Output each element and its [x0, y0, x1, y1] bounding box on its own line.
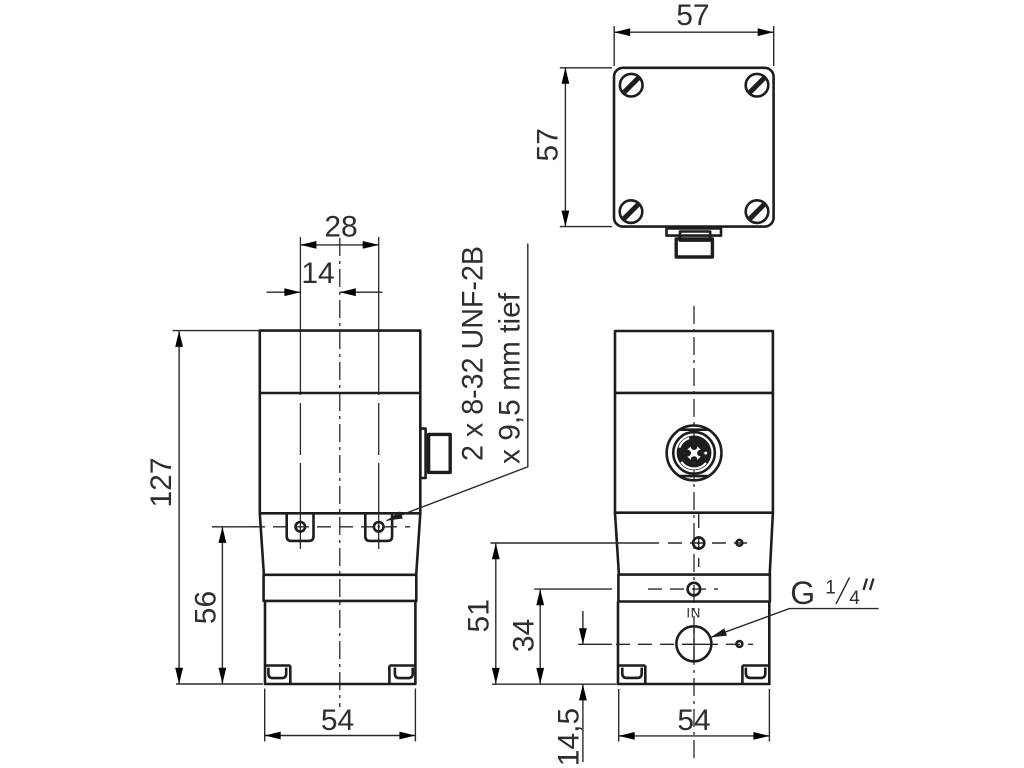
- front view: M12 connector insert: [677, 436, 712, 471]
- top view: housing outline: [614, 68, 774, 227]
- side view: screw axis extension lines: [300, 237, 378, 549]
- front view: taper left edge: [615, 513, 619, 575]
- dimension 127: extension lines: [173, 331, 263, 684]
- top view: screw top-right: [746, 74, 769, 97]
- svg-text:x 9,5 mm tief: x 9,5 mm tief: [494, 292, 527, 464]
- svg-text:51: 51: [463, 599, 496, 632]
- side view: housing cap parting line: [260, 392, 421, 395]
- svg-text:127: 127: [145, 457, 178, 507]
- note leader line: [385, 244, 528, 525]
- dimension 51: dimension line with arrows: [492, 543, 500, 684]
- G 1/4 label text: [790, 575, 873, 611]
- svg-text:56: 56: [190, 591, 223, 624]
- side view: main housing outline: [260, 331, 421, 514]
- front view: M12 pins: [684, 443, 707, 462]
- side view: taper left edge: [260, 513, 264, 575]
- front view: left foot cup: [622, 668, 641, 678]
- FRONT VIEW: [463, 306, 879, 766]
- dimension 57 vertical: extension lines: [560, 68, 612, 227]
- front view: main housing outline: [615, 331, 773, 513]
- svg-text:1: 1: [825, 578, 836, 599]
- front view: taper right edge: [770, 513, 773, 575]
- side view: base block: [265, 601, 415, 684]
- dimension 57 horizontal: dimension line with arrows: [614, 28, 774, 36]
- top view: screw top-left: [620, 74, 643, 97]
- front view: left foot step: [618, 666, 645, 685]
- dimension 54 side: dimension line with arrows: [265, 732, 416, 740]
- side view: left foot cup: [268, 668, 286, 679]
- front view: vertical centerline: [693, 306, 695, 763]
- svg-text:G: G: [790, 575, 815, 611]
- front view: M12 connector hex flats: [679, 430, 710, 476]
- side view: left foot step: [265, 666, 290, 685]
- top view: connector base plate: [667, 228, 722, 235]
- side view: connector plug body: [429, 434, 451, 472]
- dimension 54 side: extension lines: [265, 689, 416, 742]
- front view: G 1/4 inlet port: [676, 626, 711, 661]
- top view: screw bottom-left: [620, 200, 643, 223]
- dimension 14,5: upper arrow: [579, 611, 587, 644]
- front view: inlet port axis lines: [578, 628, 753, 660]
- svg-text:57: 57: [532, 128, 565, 161]
- svg-text:54: 54: [677, 704, 710, 737]
- svg-text:IN: IN: [686, 605, 701, 620]
- top view: screw bottom-right: [746, 200, 769, 223]
- front view: band screw axis line: [534, 588, 718, 590]
- side view: taper right edge: [416, 513, 420, 575]
- front view: M12 insert highlight arcs: [679, 438, 706, 468]
- front view: small hole right of adjustment screw: [737, 540, 743, 546]
- SIDE VIEW: [145, 210, 528, 741]
- dimension 28: dimension line with arrows: [300, 241, 378, 249]
- front view: clamp band: [618, 575, 770, 602]
- dimension 56: dimension line with arrows: [219, 527, 227, 684]
- side view: right foot cup: [395, 668, 413, 679]
- front view: band screw: [688, 583, 701, 596]
- dimension 54 front: extension lines: [619, 689, 770, 742]
- front view: right foot step: [742, 666, 769, 685]
- dimension 56: extension line: [212, 526, 258, 528]
- dimension 51: extension line bottom: [492, 683, 617, 685]
- side view: connector flange strip: [420, 429, 425, 478]
- front view: M12 connector thread ring: [673, 432, 715, 474]
- TOP VIEW: [532, 0, 774, 257]
- dimension 14,5: lower arrow: [579, 684, 587, 762]
- top view: connector plug body: [676, 239, 712, 257]
- dimension 127: dimension line with arrows: [175, 331, 183, 684]
- front view: base block: [618, 602, 769, 685]
- svg-text:28: 28: [324, 210, 357, 243]
- dimension 34: dimension line with arrows: [536, 589, 544, 684]
- svg-text:34: 34: [508, 619, 541, 652]
- front view: M12 connector outer circle: [667, 426, 722, 481]
- top view: connector neck: [680, 232, 710, 241]
- svg-text:54: 54: [321, 704, 354, 737]
- svg-text:57: 57: [676, 0, 709, 32]
- G 1/4 label leader: [709, 609, 878, 641]
- svg-text:14,5: 14,5: [552, 708, 585, 766]
- side view: vertical centerline: [339, 238, 341, 707]
- svg-text:2 x 8-32 UNF-2B: 2 x 8-32 UNF-2B: [456, 246, 489, 461]
- svg-text:4: 4: [849, 588, 860, 609]
- side view: screw axis horizontal dashes: [251, 526, 410, 528]
- front view: small hole right of port: [737, 641, 743, 647]
- side view: left screw tab: [287, 514, 314, 541]
- svg-text:14: 14: [301, 257, 334, 290]
- front view: right foot cup: [746, 668, 765, 678]
- dimension 57 horizontal: extension lines: [614, 26, 774, 66]
- front view: adjustment screw: [693, 537, 704, 548]
- front view: adjustment screw axis line: [491, 514, 748, 567]
- side view: right screw tab: [365, 514, 392, 541]
- dimension 54 front: dimension line with arrows: [619, 732, 770, 740]
- dimension 14: left arrow: [267, 288, 301, 296]
- front view: housing cap parting line: [615, 392, 773, 395]
- side view: right foot step: [389, 666, 415, 685]
- side view: right tab screw: [374, 522, 384, 532]
- side view: left tab screw: [296, 522, 306, 532]
- side view: clamp band: [264, 575, 417, 601]
- front view: M12 pin field: [684, 443, 704, 463]
- dimension 14: right arrow: [340, 288, 383, 296]
- dimension 57 vertical: dimension line with arrows: [562, 68, 570, 227]
